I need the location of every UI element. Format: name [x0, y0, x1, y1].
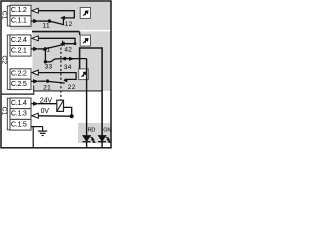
svg-text:41: 41 — [43, 47, 51, 54]
band2 top line connector to icon box 41/42 — [79, 32, 81, 36]
wire 34 to LED RD branch — [66, 58, 87, 60]
output arrow (filled) C.1.1 — [33, 19, 39, 23]
node 41 junction dot — [44, 47, 47, 50]
output arrow (filled) C.2.5 — [33, 79, 39, 83]
wire 34 down to LED RD — [86, 59, 88, 136]
svg-text:22: 22 — [68, 84, 76, 91]
fixed contact arrowhead 22 — [63, 79, 67, 83]
fixed contact arrowhead 12 — [60, 16, 65, 20]
svg-text:C.2.5: C.2.5 — [11, 79, 27, 88]
svg-text:C.1.2: C.1.2 — [11, 5, 27, 14]
band 2 lower-left edge — [33, 86, 35, 95]
wire C.1.2 to contact 11/12 — [38, 11, 74, 18]
svg-text:C.2.2: C.2.2 — [11, 69, 27, 78]
icon box contact 11/12 — [80, 8, 90, 19]
output direction arrow 34 — [69, 57, 74, 61]
branch wire node 41 down to node 33 — [44, 49, 46, 62]
svg-text:C.2.4: C.2.4 — [11, 35, 27, 44]
svg-text:C2: C2 — [0, 55, 7, 64]
terminal box C.2.4 — [10, 35, 31, 46]
input arrow (open) C.1.2 — [32, 8, 38, 13]
gray band 2 (relay contact block rows 41/42,33/34,21/22) — [32, 31, 110, 90]
terminal box C.1.4 — [10, 98, 31, 109]
wire 24V to coil box — [38, 103, 57, 105]
background — [0, 0, 114, 150]
node 33 junction dot — [44, 60, 47, 63]
wire C.2.1 to node 41 — [38, 48, 46, 50]
svg-text:11: 11 — [42, 23, 50, 30]
terminal box C.1.2 — [10, 5, 31, 16]
mechanical linkage dashed line — [60, 48, 62, 100]
junction dot at 42 return corner — [74, 42, 77, 45]
node 21 junction dot — [46, 79, 49, 82]
coil box K (supply element) — [57, 100, 64, 111]
svg-text:C.1.4: C.1.4 — [11, 98, 27, 107]
node 11 junction dot — [48, 19, 51, 22]
outer frame border — [1, 1, 111, 148]
icon box contact 41/42 — [80, 35, 90, 46]
svg-text:C1: C1 — [0, 11, 7, 20]
svg-text:34: 34 — [64, 64, 72, 71]
svg-text:RD: RD — [88, 127, 96, 133]
earth ground symbol — [38, 127, 47, 136]
bracket C1 top — [7, 6, 9, 26]
fixed contact arrowhead 42 — [60, 42, 65, 46]
svg-text:C.2.1: C.2.1 — [11, 45, 27, 54]
svg-text:C.1.5: C.1.5 — [11, 119, 27, 128]
svg-text:12: 12 — [65, 21, 73, 28]
wire C.1.5 to earth — [31, 126, 43, 128]
bracket C2 — [7, 35, 9, 90]
terminal box C.1.5 — [10, 119, 31, 130]
wire 0V — [38, 115, 71, 117]
svg-text:C.1.1: C.1.1 — [11, 16, 27, 25]
terminal box C.2.2 — [10, 69, 31, 80]
section divider line — [1, 93, 34, 95]
supply arrow (filled) C.1.4 — [33, 102, 39, 106]
svg-text:33: 33 — [45, 64, 53, 71]
fixed contact dot 33 — [63, 57, 66, 60]
node 0V junction dot — [70, 114, 74, 118]
wire C.2.5 to node 21 — [38, 80, 46, 82]
wire node 33 rising to contact 33/34 — [45, 59, 63, 62]
svg-text:C.1.3: C.1.3 — [11, 109, 27, 118]
band 2 top border line — [32, 31, 79, 33]
output arrow (filled) C.2.1 — [33, 47, 39, 51]
bracket C1 bottom — [7, 98, 9, 130]
contact blade 21-22 — [48, 81, 65, 83]
contact bar 42 — [62, 41, 64, 46]
svg-text:0V: 0V — [41, 108, 50, 115]
wire C.1.5 down to frame — [32, 127, 34, 148]
wire C.2.4 to contact 41/42 — [38, 38, 75, 43]
svg-text:21: 21 — [43, 85, 51, 92]
band 2 bottom border line — [33, 90, 103, 92]
relay block right edge / wire to LED GN — [101, 47, 103, 135]
gray band 1 (relay contact row 11/12) — [10, 2, 111, 30]
relay block box (top and left edges) — [80, 48, 103, 69]
svg-text:GN: GN — [103, 127, 111, 133]
svg-text:42: 42 — [64, 47, 72, 54]
terminal box C.2.5 — [10, 79, 31, 90]
LED RD — [83, 136, 95, 148]
terminal box C.1.1 — [10, 16, 31, 27]
icon box contact 21/22 — [79, 69, 89, 80]
contact bar 12 — [62, 19, 64, 25]
LED GN — [98, 136, 110, 148]
gray LED indicator zone — [78, 123, 111, 143]
terminal box C.1.3 — [10, 109, 31, 120]
contact blade 41-42 — [47, 45, 63, 49]
input arrow (open) C.2.2 — [32, 70, 38, 75]
wire C.2.2 to contact 21/22 — [38, 73, 76, 80]
contact blade 11-12 — [51, 21, 65, 24]
input arrow (open) C.2.4 — [32, 36, 38, 41]
wire coil box to 0V node — [64, 107, 72, 116]
wire C.1.1 to node 11 — [38, 20, 49, 22]
return arrow (open) C.1.3 — [32, 113, 38, 118]
svg-text:C1: C1 — [0, 107, 7, 116]
terminal box C.2.1 — [10, 45, 31, 56]
